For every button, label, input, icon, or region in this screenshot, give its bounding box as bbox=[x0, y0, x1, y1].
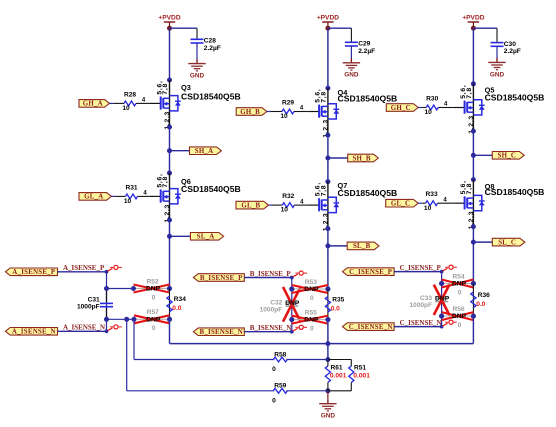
svg-text:C28: C28 bbox=[204, 38, 216, 45]
svg-text:R58: R58 bbox=[274, 352, 286, 359]
svg-text:R54: R54 bbox=[452, 273, 464, 280]
node +PVDD junction B bbox=[325, 26, 330, 31]
svg-text:R61: R61 bbox=[331, 365, 343, 372]
wire R28 to gate Q3 bbox=[136, 102, 150, 104]
svg-text:C30: C30 bbox=[504, 41, 516, 48]
svg-text:R57: R57 bbox=[147, 309, 159, 316]
node drain Q7 bbox=[325, 179, 330, 184]
transistor Q6 bbox=[150, 195, 160, 197]
wire GL_C to R33 bbox=[418, 202, 422, 204]
wire C_ISENSE_P bbox=[394, 271, 442, 273]
svg-text:+PVDD: +PVDD bbox=[462, 14, 484, 21]
svg-text:SL_A: SL_A bbox=[197, 234, 215, 241]
node SH_B tap bbox=[325, 156, 330, 161]
svg-text:R28: R28 bbox=[124, 91, 136, 98]
svg-text:2.2µF: 2.2µF bbox=[204, 45, 221, 52]
wire drain-source passthrough Q6 bbox=[169, 173, 171, 220]
wire PVDD to cap C30 bbox=[473, 27, 497, 29]
port B_ISENSE_P bbox=[193, 274, 244, 282]
svg-text:R31: R31 bbox=[125, 184, 137, 191]
svg-text:C_ISENSE_P: C_ISENSE_P bbox=[349, 269, 393, 276]
node sense P row A bbox=[104, 286, 109, 291]
wire R31 to gate Q6 bbox=[138, 195, 150, 197]
wire N row A bbox=[107, 318, 135, 320]
transistor Q3 bbox=[150, 102, 160, 104]
wire A_ISENSE_P bbox=[58, 271, 107, 273]
resistor R29 bbox=[282, 109, 294, 114]
wire rail B to C bbox=[328, 343, 474, 345]
resistor R58 bbox=[273, 357, 287, 362]
no-ERC marker A_ISENSE_P bbox=[107, 269, 112, 272]
resistor R51 bbox=[328, 359, 351, 361]
wire sense line A bbox=[106, 272, 108, 332]
svg-text:CSD18540Q5B: CSD18540Q5B bbox=[485, 92, 545, 102]
wire GL_B to R32 bbox=[269, 204, 273, 206]
node drain Q5 bbox=[471, 81, 476, 86]
ground under C29 bbox=[350, 58, 352, 63]
capacitor C30 bbox=[491, 42, 504, 44]
port C_ISENSE_P bbox=[343, 268, 395, 276]
svg-text:0: 0 bbox=[272, 366, 276, 373]
port SL_A bbox=[190, 233, 223, 241]
node SL_A tap bbox=[167, 234, 172, 239]
svg-text:GH_A: GH_A bbox=[83, 101, 103, 108]
node SH_C tap bbox=[471, 153, 476, 158]
wire drop to R58 row bbox=[133, 319, 135, 359]
svg-text:R53: R53 bbox=[305, 279, 317, 286]
wire to port SL_A bbox=[170, 235, 191, 237]
node sense P row B bbox=[289, 287, 294, 292]
svg-text:R56: R56 bbox=[452, 306, 464, 313]
node source Q6 bbox=[167, 218, 172, 223]
svg-text:DNP: DNP bbox=[304, 286, 319, 293]
svg-text:0: 0 bbox=[272, 397, 276, 404]
resistor R54 (DNP) bbox=[442, 283, 452, 285]
svg-text:1000pF: 1000pF bbox=[260, 307, 283, 314]
svg-text:10: 10 bbox=[280, 113, 288, 120]
wire Q6 source down bbox=[169, 220, 171, 289]
node B_ISENSE_N corner bbox=[290, 330, 294, 334]
svg-text:0: 0 bbox=[152, 294, 156, 301]
svg-text:B_ISENSE_P: B_ISENSE_P bbox=[250, 270, 292, 278]
port GH_B bbox=[236, 108, 267, 116]
wire drain-source passthrough Q5 bbox=[472, 84, 474, 131]
port GL_A bbox=[79, 193, 111, 201]
svg-text:0: 0 bbox=[310, 326, 314, 333]
svg-text:B_ISENSE_N: B_ISENSE_N bbox=[250, 324, 292, 332]
svg-text:DNP: DNP bbox=[435, 296, 450, 303]
svg-text:R51: R51 bbox=[354, 365, 366, 372]
node +PVDD junction A bbox=[167, 26, 172, 31]
node star rail B bbox=[325, 341, 330, 346]
wire bus to R36 bbox=[472, 284, 474, 317]
wire bus to R35 bbox=[327, 289, 329, 320]
svg-text:0: 0 bbox=[458, 289, 462, 296]
node sense P row C bbox=[439, 281, 444, 286]
resistor R56 (DNP) bbox=[442, 315, 452, 317]
no-ERC marker B_ISENSE_P bbox=[293, 274, 298, 277]
svg-text:DNP: DNP bbox=[452, 281, 467, 288]
svg-text:DNP: DNP bbox=[285, 300, 300, 307]
port SH_A bbox=[190, 147, 222, 155]
wire C bus to star rail bbox=[472, 316, 474, 344]
DNP cross C33 bbox=[434, 285, 450, 315]
resistor R28 bbox=[124, 101, 136, 106]
svg-text:GL_C: GL_C bbox=[391, 201, 410, 208]
svg-text:GH_C: GH_C bbox=[391, 105, 411, 112]
port SL_B bbox=[347, 242, 379, 250]
resistor R33 bbox=[426, 201, 438, 206]
wire C_ISENSE_N bbox=[394, 326, 442, 328]
svg-text:CSD18540Q5B: CSD18540Q5B bbox=[338, 94, 398, 104]
port GH_A bbox=[79, 100, 109, 108]
node +PVDD junction C bbox=[471, 26, 476, 31]
capacitor C32 (DNP) bbox=[285, 302, 298, 304]
port GL_C bbox=[386, 199, 419, 207]
wire GH_B to R29 bbox=[267, 111, 271, 113]
svg-text:GH_B: GH_B bbox=[240, 109, 260, 116]
node sense N row A bbox=[104, 317, 109, 322]
node SL_B tap bbox=[325, 243, 330, 248]
svg-text:SH_B: SH_B bbox=[352, 155, 370, 162]
node R55 at bus bbox=[325, 317, 330, 322]
svg-text:GND: GND bbox=[190, 73, 205, 80]
capacitor C28 bbox=[191, 38, 204, 40]
svg-text:7,8: 7,8 bbox=[466, 87, 473, 99]
wire sense line C bbox=[441, 272, 443, 327]
transistor Q5 bbox=[454, 107, 464, 109]
node A_ISENSE_P corner bbox=[105, 270, 109, 274]
resistor R59 bbox=[273, 388, 287, 393]
capacitor C33 (DNP) bbox=[435, 297, 448, 299]
wire GH_A to R28 bbox=[109, 102, 113, 104]
svg-text:R55: R55 bbox=[305, 309, 317, 316]
ground bottom bbox=[327, 399, 329, 404]
resistor R57 (DNP) bbox=[134, 318, 146, 320]
wire PVDD to cap C28 bbox=[170, 27, 198, 29]
port B_ISENSE_N bbox=[193, 328, 244, 336]
port C_ISENSE_N bbox=[343, 323, 395, 331]
wire B bus through rail bbox=[327, 320, 329, 360]
wire to port SH_A bbox=[170, 150, 190, 152]
node A_ISENSE_N corner bbox=[105, 329, 109, 333]
wire drain-source passthrough Q3 bbox=[169, 80, 171, 127]
resistor R31 bbox=[126, 194, 138, 199]
transistor Q8 bbox=[454, 202, 464, 204]
svg-text:+PVDD: +PVDD bbox=[158, 14, 180, 21]
node SH_A tap bbox=[167, 148, 172, 153]
node source Q7 bbox=[325, 226, 330, 231]
svg-text:2.2µF: 2.2µF bbox=[358, 48, 375, 55]
wire Q4 source to Q7 drain bbox=[327, 135, 329, 182]
wire GH_C to R30 bbox=[418, 107, 422, 109]
wire R58 to shunt node bbox=[286, 359, 328, 361]
svg-text:7,8: 7,8 bbox=[466, 183, 473, 195]
svg-text:SH_A: SH_A bbox=[195, 148, 214, 155]
svg-text:B_ISENSE_P: B_ISENSE_P bbox=[200, 275, 243, 282]
port A_ISENSE_P bbox=[5, 268, 57, 276]
svg-text:10: 10 bbox=[124, 198, 132, 205]
resistor R34 bbox=[167, 296, 172, 312]
resistor R35 bbox=[325, 297, 330, 313]
node source Q5 bbox=[471, 129, 476, 134]
svg-text:0.0: 0.0 bbox=[331, 306, 340, 313]
svg-text:CSD18540Q5B: CSD18540Q5B bbox=[338, 188, 398, 198]
node C_ISENSE_P corner bbox=[440, 270, 444, 274]
transistor Q4 bbox=[308, 111, 318, 113]
svg-text:A_ISENSE_N: A_ISENSE_N bbox=[63, 324, 105, 332]
svg-text:R30: R30 bbox=[426, 96, 438, 103]
node C_ISENSE_N corner bbox=[440, 325, 444, 329]
wire PVDD bus B bbox=[327, 28, 329, 88]
svg-text:GND: GND bbox=[321, 413, 336, 420]
capacitor C31 bbox=[106, 289, 108, 304]
node B_ISENSE_P corner bbox=[290, 276, 294, 280]
svg-text:C32: C32 bbox=[270, 300, 282, 307]
svg-text:R32: R32 bbox=[282, 193, 294, 200]
node shunt top bbox=[325, 357, 330, 362]
node R59 drop bbox=[124, 317, 129, 322]
port SH_C bbox=[492, 152, 524, 160]
svg-text:SH_C: SH_C bbox=[498, 153, 517, 160]
node drain Q4 bbox=[325, 86, 330, 91]
wire Q7 source down bbox=[327, 229, 329, 289]
svg-text:C_ISENSE_N: C_ISENSE_N bbox=[400, 319, 442, 327]
wire drain-source passthrough Q7 bbox=[327, 182, 329, 229]
no-ERC marker C_ISENSE_P bbox=[443, 268, 448, 271]
svg-text:A_ISENSE_P: A_ISENSE_P bbox=[63, 264, 105, 272]
svg-text:10: 10 bbox=[122, 105, 130, 112]
wire R59 to shunt bottom bbox=[286, 390, 328, 392]
ground under C30 bbox=[496, 58, 498, 63]
resistor R30 bbox=[426, 105, 438, 110]
resistor R55 (DNP) bbox=[292, 319, 304, 321]
svg-text:R34: R34 bbox=[174, 296, 186, 303]
wire B_ISENSE_N bbox=[244, 331, 291, 333]
node R53 at bus bbox=[325, 287, 330, 292]
wire cap C30 to ground bbox=[496, 46, 498, 58]
svg-text:C33: C33 bbox=[420, 295, 432, 302]
svg-text:C_ISENSE_P: C_ISENSE_P bbox=[400, 264, 442, 272]
svg-text:CSD18540Q5B: CSD18540Q5B bbox=[181, 92, 241, 102]
svg-text:0: 0 bbox=[152, 325, 156, 332]
resistor R52 (DNP) bbox=[134, 288, 146, 290]
wire to port SH_C bbox=[473, 154, 492, 156]
node R54 at bus bbox=[471, 281, 476, 286]
port SH_B bbox=[348, 154, 379, 162]
svg-text:+PVDD: +PVDD bbox=[317, 14, 339, 21]
node drain Q6 bbox=[167, 171, 172, 176]
svg-text:SL_B: SL_B bbox=[353, 243, 371, 250]
svg-text:R52: R52 bbox=[146, 278, 158, 285]
wire to port SL_C bbox=[473, 241, 492, 243]
wire drop to R59 row bbox=[126, 319, 128, 391]
svg-text:C29: C29 bbox=[358, 41, 370, 48]
wire drain-source passthrough Q8 bbox=[472, 180, 474, 227]
node drain Q3 bbox=[167, 78, 172, 83]
wire Q5 source to Q8 drain bbox=[472, 131, 474, 180]
svg-text:GL_A: GL_A bbox=[84, 194, 103, 201]
svg-text:0.0: 0.0 bbox=[172, 305, 181, 312]
svg-text:0: 0 bbox=[458, 322, 462, 329]
node R57 at bus bbox=[167, 317, 172, 322]
svg-text:7,8: 7,8 bbox=[320, 91, 327, 103]
wire R32 to gate Q7 bbox=[294, 204, 308, 206]
port GL_B bbox=[236, 201, 269, 209]
DNP cross C32 bbox=[283, 287, 301, 322]
node drain Q8 bbox=[471, 177, 476, 182]
svg-text:10: 10 bbox=[425, 109, 433, 116]
svg-text:GND: GND bbox=[490, 71, 505, 78]
wire drain-source passthrough Q4 bbox=[327, 88, 329, 135]
wire cap C29 to ground bbox=[350, 46, 352, 59]
svg-text:10: 10 bbox=[424, 205, 432, 212]
node sense N row B bbox=[289, 317, 294, 322]
svg-text:GL_B: GL_B bbox=[241, 202, 260, 209]
svg-text:1000pF: 1000pF bbox=[409, 302, 432, 309]
port A_ISENSE_N bbox=[5, 328, 57, 336]
svg-text:0.001: 0.001 bbox=[330, 372, 347, 379]
wire R33 to gate Q8 bbox=[438, 202, 454, 204]
svg-text:7,8: 7,8 bbox=[162, 176, 169, 188]
svg-text:7,8: 7,8 bbox=[320, 185, 327, 197]
node source Q4 bbox=[325, 133, 330, 138]
wire R30 to gate Q5 bbox=[438, 107, 454, 109]
svg-text:0.001: 0.001 bbox=[353, 372, 370, 379]
node SL_C tap bbox=[471, 240, 476, 245]
resistor R36 bbox=[471, 292, 476, 308]
wire PVDD bus A bbox=[169, 28, 171, 80]
svg-text:GND: GND bbox=[344, 72, 359, 79]
port SL_C bbox=[492, 238, 525, 246]
svg-text:R36: R36 bbox=[478, 292, 490, 299]
svg-text:2.2µF: 2.2µF bbox=[504, 48, 521, 55]
svg-text:B_ISENSE_N: B_ISENSE_N bbox=[200, 329, 243, 336]
svg-text:R29: R29 bbox=[282, 100, 294, 107]
transistor Q7 bbox=[308, 204, 318, 206]
wire B_ISENSE_P bbox=[244, 277, 291, 279]
wire P row A bbox=[107, 288, 134, 290]
no-ERC marker B_ISENSE_N bbox=[293, 328, 298, 331]
svg-text:A_ISENSE_N: A_ISENSE_N bbox=[12, 329, 56, 336]
svg-text:DNP: DNP bbox=[146, 316, 161, 323]
svg-text:0.0: 0.0 bbox=[476, 301, 485, 308]
wire bus to R34 bbox=[169, 289, 171, 320]
svg-text:SL_C: SL_C bbox=[498, 239, 516, 246]
wire sense line B bbox=[291, 278, 293, 332]
svg-text:R33: R33 bbox=[426, 191, 438, 198]
wire Q3 source to Q6 drain bbox=[169, 127, 171, 173]
resistor R61 bbox=[327, 360, 329, 367]
svg-text:10: 10 bbox=[281, 207, 289, 214]
svg-text:DNP: DNP bbox=[304, 317, 319, 324]
node sense N row C bbox=[439, 314, 444, 319]
node source Q3 bbox=[167, 125, 172, 130]
wire to port SH_B bbox=[328, 157, 348, 159]
svg-text:DNP: DNP bbox=[146, 286, 161, 293]
svg-text:1000pF: 1000pF bbox=[77, 303, 100, 310]
node R52 at bus bbox=[167, 286, 172, 291]
wire PVDD bus C bbox=[472, 28, 474, 84]
wire PVDD to cap C29 bbox=[328, 27, 352, 29]
svg-text:0: 0 bbox=[310, 295, 314, 302]
node R56 at bus bbox=[471, 314, 476, 319]
wire cap C28 to ground bbox=[196, 43, 198, 59]
port GH_C bbox=[386, 104, 418, 112]
svg-text:R59: R59 bbox=[274, 382, 286, 389]
svg-text:CSD18540Q5B: CSD18540Q5B bbox=[485, 187, 545, 197]
resistor R32 bbox=[282, 203, 294, 208]
wire GL_A to R31 bbox=[111, 195, 115, 197]
wire Q8 source down bbox=[472, 227, 474, 284]
resistor R53 (DNP) bbox=[292, 288, 304, 290]
svg-text:A_ISENSE_P: A_ISENSE_P bbox=[12, 269, 56, 276]
no-ERC marker A_ISENSE_N bbox=[107, 328, 112, 331]
wire R29 to gate Q4 bbox=[294, 111, 308, 113]
wire A_ISENSE_N bbox=[58, 330, 107, 332]
svg-text:R35: R35 bbox=[332, 296, 344, 303]
svg-text:C_ISENSE_N: C_ISENSE_N bbox=[349, 324, 393, 331]
svg-text:CSD18540Q5B: CSD18540Q5B bbox=[181, 184, 241, 194]
capacitor C29 bbox=[345, 41, 358, 43]
wire A bus to star rail bbox=[169, 319, 171, 343]
no-ERC marker C_ISENSE_N bbox=[443, 323, 448, 326]
svg-text:DNP: DNP bbox=[452, 313, 467, 320]
node source Q8 bbox=[471, 224, 476, 229]
ground under C28 bbox=[196, 59, 198, 64]
svg-text:7,8: 7,8 bbox=[162, 83, 169, 95]
node shunt bottom bbox=[325, 388, 330, 393]
wire to port SL_B bbox=[328, 245, 347, 247]
wire shunt to ground bbox=[327, 391, 329, 399]
